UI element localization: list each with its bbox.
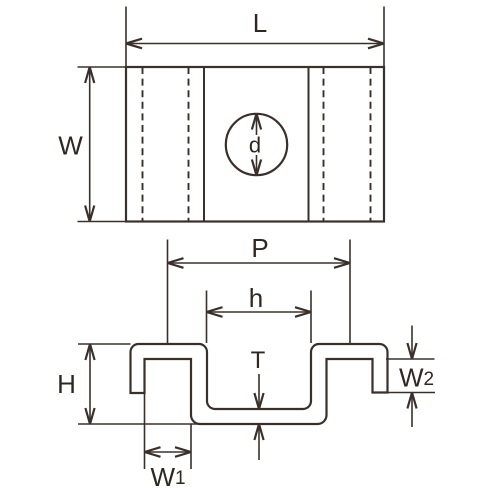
svg-text:L: L bbox=[253, 8, 267, 38]
svg-text:T: T bbox=[251, 347, 266, 374]
svg-text:d: d bbox=[249, 133, 261, 158]
svg-text:W: W bbox=[58, 131, 83, 161]
svg-text:W1: W1 bbox=[151, 462, 186, 492]
svg-text:W2: W2 bbox=[399, 363, 434, 393]
svg-text:h: h bbox=[249, 283, 263, 313]
svg-text:P: P bbox=[251, 233, 268, 263]
svg-text:H: H bbox=[57, 369, 76, 399]
